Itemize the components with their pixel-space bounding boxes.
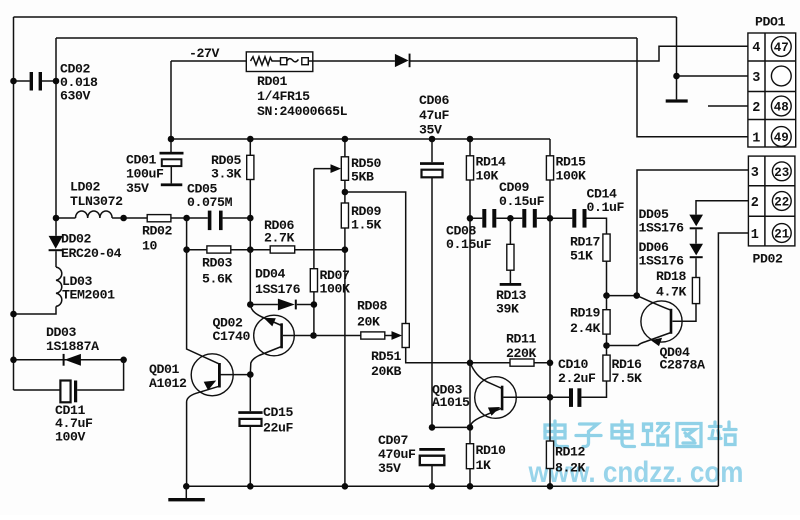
resistor RD09 [341, 203, 348, 228]
svg-text:2.2uF: 2.2uF [558, 371, 596, 386]
wiper arrow RD51 [392, 331, 403, 340]
svg-text:RD18: RD18 [656, 269, 687, 284]
svg-text:SN:24000665L: SN:24000665L [257, 104, 348, 119]
junction [507, 215, 514, 222]
wire QD04 emitter row [607, 345, 638, 347]
diode DD04 [278, 299, 297, 311]
junction [10, 78, 17, 85]
svg-text:1.5K: 1.5K [351, 217, 382, 232]
resistor RD07 [310, 269, 317, 292]
node 47 PDO1 [771, 37, 791, 57]
svg-text:1: 1 [752, 132, 760, 147]
label DD02 value [61, 232, 122, 262]
wire ground bus [186, 485, 718, 487]
label DD06 value [639, 240, 685, 268]
wire RD14 down [469, 180, 471, 218]
capacitor CD06 [420, 162, 444, 177]
wire emitter row [432, 426, 470, 428]
wire RD05 node down [249, 218, 251, 305]
transistor QD04 [637, 296, 682, 347]
resistor RD05 [247, 155, 254, 179]
node -27V label [189, 46, 220, 61]
transistor QD01 [187, 250, 234, 487]
wire CD02 left [14, 80, 30, 82]
label RD07 value [320, 268, 351, 296]
wire RD05 to node [249, 180, 251, 219]
svg-text:DD03: DD03 [46, 325, 77, 340]
transistor QD02 [250, 305, 294, 375]
junction [467, 483, 474, 490]
svg-text:TLN3072: TLN3072 [70, 194, 123, 209]
svg-text:4.7K: 4.7K [656, 285, 687, 300]
wire PD02 pin3 line [637, 170, 748, 296]
junction [547, 215, 554, 222]
wire RD19 bottom [606, 334, 608, 355]
svg-text:RD19: RD19 [570, 306, 601, 321]
node 21 PD02 [772, 224, 791, 243]
label CD07 value [378, 433, 416, 476]
capacitor CD10 [569, 388, 581, 407]
svg-text:QD01: QD01 [149, 362, 180, 377]
svg-text:RD08: RD08 [357, 299, 388, 314]
wire PDO1 pin3 line [677, 75, 748, 77]
label RD19 value [570, 306, 601, 337]
wire bus to RD05 [249, 139, 251, 155]
wire rail x56 upper [55, 38, 57, 236]
wire RD16 to CD10 [581, 381, 606, 397]
junction [467, 424, 474, 431]
resistor RD11 [510, 359, 534, 366]
label QD01 value [149, 362, 187, 391]
svg-text:1K: 1K [476, 458, 492, 473]
diode D1 series [395, 54, 411, 68]
wire RD50 wiper drop x313.9 [313, 169, 315, 269]
wire QD01 base [219, 374, 250, 376]
label RD50 value [351, 156, 382, 184]
diode DD03 [63, 354, 81, 366]
svg-text:2: 2 [751, 196, 759, 211]
wire RD08 row [314, 335, 393, 337]
node blank PDO1 [771, 66, 791, 86]
svg-text:100uF: 100uF [126, 167, 164, 182]
wire CD11 left [14, 389, 61, 391]
connector PDO1 [748, 33, 796, 147]
label RD17 value [570, 235, 601, 264]
node 23 PD02 [772, 162, 791, 181]
wire bus to CD06 [431, 139, 433, 162]
wire DD02 to LD03 [55, 251, 57, 267]
label RD06 value [264, 218, 295, 245]
junction [633, 292, 640, 299]
svg-text:35V: 35V [126, 181, 149, 196]
label LD02 value [70, 180, 123, 210]
svg-text:3: 3 [751, 166, 759, 181]
pin 3 PDO1 [752, 71, 760, 86]
svg-text:10: 10 [142, 238, 158, 253]
svg-text:CD10: CD10 [558, 357, 589, 372]
junction [120, 357, 127, 364]
junction [10, 311, 17, 318]
wire LD03 to left rail [14, 306, 57, 314]
wire RD15 down [549, 180, 551, 218]
junction [247, 246, 254, 253]
resistor RD13 [507, 244, 514, 270]
wire RD11 row [470, 362, 550, 364]
wire CD15 down [249, 426, 251, 486]
label RD11 value [506, 332, 537, 362]
capacitor CD15 [238, 411, 262, 426]
label RD01 value [257, 74, 348, 119]
label RD09 value [351, 204, 382, 232]
wire left rail [13, 17, 15, 390]
svg-text:-27V: -27V [189, 46, 220, 61]
wire RD02 to CD05 [171, 217, 208, 219]
wire RD50 bottom [344, 180, 346, 203]
ground PDO1 [666, 99, 688, 102]
svg-text:RD15: RD15 [556, 155, 587, 170]
svg-text:47: 47 [774, 41, 789, 55]
svg-text:CD09: CD09 [499, 180, 530, 195]
svg-text:39K: 39K [496, 301, 519, 316]
wire bus corner to RD15 [549, 139, 551, 156]
wire RD51 bottom row [406, 348, 470, 363]
pin 4 PDO1 [752, 41, 760, 56]
resistor RD16 [603, 355, 610, 381]
terminal bar under CD01 [161, 183, 183, 186]
svg-text:CD06: CD06 [419, 93, 450, 108]
junction [342, 483, 349, 490]
wire CD11 right [77, 360, 123, 390]
label QD02 value [213, 316, 251, 345]
svg-text:49: 49 [774, 131, 789, 145]
label RD08 value [357, 299, 388, 330]
pin 2 PDO1 [752, 101, 760, 116]
junction [429, 424, 436, 431]
watermark url [528, 456, 744, 489]
junction [342, 246, 349, 253]
junction [53, 215, 60, 222]
junction [183, 483, 190, 490]
inductor LD02 [76, 211, 113, 218]
junction [547, 394, 554, 401]
node 49 PDO1 [771, 127, 791, 147]
junction [547, 483, 554, 490]
resistor RD02 [147, 215, 171, 222]
resistor RD10 [466, 444, 473, 469]
resistor RD06 [270, 246, 295, 253]
capacitor CD11 [60, 381, 77, 403]
resistor RD08 [361, 332, 385, 339]
svg-text:CD01: CD01 [126, 153, 157, 168]
wire PDO1 pin2 stub [708, 105, 748, 107]
svg-text:8.2K: 8.2K [555, 461, 586, 476]
wire horizontal bus y139 [171, 138, 550, 140]
junction [603, 342, 610, 349]
wire RD17 to QD04 [607, 295, 637, 297]
wire RD09 down [344, 228, 346, 486]
svg-text:RD12: RD12 [555, 445, 586, 460]
junction [311, 301, 318, 308]
svg-text:7.5K: 7.5K [612, 371, 643, 386]
wire CD02 right [42, 80, 56, 82]
svg-text:RD14: RD14 [476, 155, 507, 170]
svg-text:A1012: A1012 [149, 376, 187, 391]
pin 3 PD02 [751, 166, 759, 181]
label CD05 value [187, 182, 233, 211]
wire RD13 drop [509, 218, 511, 244]
svg-text:RD02: RD02 [142, 224, 173, 239]
junction [10, 357, 17, 364]
junction [53, 78, 60, 85]
resistor RD12 [546, 441, 553, 469]
junction [603, 292, 610, 299]
label PD02 [753, 252, 784, 267]
junction [673, 73, 680, 80]
label RD13 value [496, 288, 527, 316]
wire DD03 row [14, 359, 124, 361]
label CD14 value [587, 187, 625, 215]
wire RD12 down [549, 469, 551, 487]
junction [467, 136, 474, 143]
wire QD04 base [673, 304, 697, 322]
wire CD08 row [470, 218, 607, 234]
wire PD02 pin1 line [718, 233, 748, 486]
svg-text:20KB: 20KB [371, 364, 402, 379]
svg-text:5KB: 5KB [351, 169, 374, 184]
svg-text:21: 21 [774, 228, 789, 242]
wire RD10 down [469, 469, 471, 487]
label RD12 value [555, 445, 586, 476]
svg-text:5.6K: 5.6K [202, 272, 233, 287]
label RD02 value [142, 224, 173, 254]
svg-text:1/4FR15: 1/4FR15 [257, 89, 310, 104]
wire RD13 tail [509, 270, 511, 283]
wire bus to RD50 [344, 139, 346, 157]
wire CD06 down [431, 177, 433, 427]
svg-text:DD04: DD04 [255, 267, 286, 282]
wire RD01 to diode [313, 60, 395, 62]
potentiometer RD50 [341, 157, 348, 181]
svg-text:2.4K: 2.4K [570, 321, 601, 336]
svg-text:20K: 20K [357, 315, 380, 330]
junction [467, 360, 474, 367]
label CD15 value [263, 405, 294, 436]
svg-text:10K: 10K [476, 169, 499, 184]
wire DD06 top [695, 229, 697, 243]
svg-text:RD16: RD16 [612, 357, 643, 372]
pin 1 PDO1 [752, 132, 760, 147]
wire RD19 top [606, 296, 608, 310]
label RD03 value [202, 256, 233, 287]
wire CD05 to node [223, 217, 251, 219]
wire CD07 down [431, 465, 433, 486]
wire RD07 down [313, 292, 315, 336]
wire diode to PDO1 pin4 [411, 46, 748, 61]
svg-text:2: 2 [752, 101, 760, 116]
svg-text:DD02: DD02 [61, 232, 92, 247]
wire RD50 tap to RD51 [345, 192, 406, 324]
label PDO1 [755, 15, 786, 30]
svg-text:3.3K: 3.3K [211, 166, 242, 181]
svg-text:35V: 35V [378, 461, 401, 476]
capacitor CD07 [419, 448, 445, 465]
inductor LD03 [56, 267, 62, 306]
wire DD04 right [297, 304, 314, 306]
junction [310, 332, 317, 339]
label RD05 value [211, 153, 242, 181]
terminal bar under RD13 [500, 283, 522, 286]
capacitor CD09 [522, 209, 537, 228]
svg-text:RD10: RD10 [476, 443, 507, 458]
junction [183, 215, 190, 222]
label CD06 value [419, 93, 450, 138]
svg-text:23: 23 [774, 166, 789, 180]
capacitor CD14 [572, 209, 586, 228]
node 48 PDO1 [771, 96, 791, 116]
label QD04 value [660, 345, 706, 373]
pin 2 PD02 [751, 196, 759, 211]
label RD16 value [612, 357, 643, 386]
wire top rail -27V feed [14, 16, 677, 18]
resistor RD18 [692, 278, 699, 304]
fusible resistor RD01 [246, 52, 312, 72]
svg-text:630V: 630V [60, 89, 91, 104]
svg-text:3: 3 [752, 71, 760, 86]
svg-text:0.075M: 0.075M [187, 195, 233, 210]
svg-text:CD07: CD07 [378, 433, 409, 448]
junction [183, 246, 190, 253]
svg-text:RD11: RD11 [506, 332, 537, 347]
svg-text:RD17: RD17 [570, 235, 601, 250]
wire second top rail [56, 37, 637, 39]
svg-text:2.7K: 2.7K [264, 230, 295, 245]
wire DD04 left [250, 304, 278, 306]
svg-text:A1015: A1015 [432, 395, 470, 410]
wire DD05 to PD02 pin2 [696, 201, 748, 215]
wire RD18 top [695, 258, 697, 277]
wire y218 left [56, 217, 76, 219]
svg-text:C2878A: C2878A [660, 358, 706, 373]
label DD03 value [46, 325, 99, 354]
wire QD02 base [283, 335, 314, 337]
wire QD03 base [503, 396, 550, 398]
label CD09 value [499, 180, 545, 209]
wire RD03 row [187, 249, 345, 251]
resistor RD03 [207, 246, 231, 253]
junction [247, 483, 254, 490]
node 22 PD02 [772, 192, 791, 211]
label CD11 value [55, 403, 93, 444]
svg-text:C1740: C1740 [213, 329, 251, 344]
svg-text:RD01: RD01 [257, 74, 288, 89]
label CD02 value [60, 62, 98, 104]
svg-text:RD51: RD51 [371, 349, 402, 364]
svg-text:100K: 100K [320, 281, 351, 296]
label LD03 value [62, 274, 115, 302]
wiper arrow RD50 [314, 164, 341, 173]
svg-text:51K: 51K [570, 249, 593, 264]
label CD01 value [126, 153, 164, 196]
resistor RD17 [603, 234, 610, 261]
svg-text:PD02: PD02 [753, 252, 784, 267]
svg-text:0.15uF: 0.15uF [446, 237, 492, 252]
label RD51 value [371, 349, 402, 379]
svg-text:22uF: 22uF [263, 421, 294, 436]
junction [429, 483, 436, 490]
pin 1 PD02 [751, 228, 759, 243]
svg-text:48: 48 [774, 101, 789, 115]
junction [342, 189, 349, 196]
label RD10 value [476, 443, 507, 473]
wire LD02 to RD02 [112, 217, 147, 219]
wire CD10 to node [550, 396, 569, 398]
capacitor CD08 [482, 209, 496, 228]
svg-text:1S1887A: 1S1887A [46, 339, 99, 354]
svg-text:RD03: RD03 [202, 256, 233, 271]
junction [247, 371, 254, 378]
resistor RD19 [603, 310, 610, 334]
junction [247, 136, 254, 143]
wire PDO1 pin1 line [637, 38, 748, 137]
watermark site name [545, 421, 736, 447]
wire bus to RD14 [469, 139, 471, 156]
svg-text:TEM2001: TEM2001 [62, 287, 115, 302]
svg-text:220K: 220K [506, 346, 537, 361]
label CD08 value [446, 224, 492, 252]
wire x550 column [549, 218, 551, 441]
junction [120, 215, 127, 222]
svg-text:1SS176: 1SS176 [639, 220, 685, 235]
diode DD05 [689, 215, 703, 230]
svg-text:100V: 100V [55, 429, 86, 444]
svg-text:ERC20-04: ERC20-04 [61, 246, 122, 261]
svg-text:470uF: 470uF [378, 447, 416, 462]
svg-text:PDO1: PDO1 [755, 15, 786, 30]
junction [247, 301, 254, 308]
junction [342, 136, 349, 143]
svg-text:1SS176: 1SS176 [255, 282, 301, 297]
junction [168, 136, 175, 143]
resistor RD14 [466, 156, 473, 180]
svg-text:4: 4 [752, 41, 760, 56]
connector PD02 [748, 156, 795, 246]
svg-text:35V: 35V [419, 123, 442, 138]
junction [547, 360, 554, 367]
junction [467, 215, 474, 222]
wire x470 mid [469, 218, 471, 443]
diode DD02 [49, 236, 63, 251]
wire x676 drop to ground [676, 17, 678, 99]
potentiometer RD51 [402, 324, 409, 348]
svg-text:47uF: 47uF [419, 108, 450, 123]
svg-text:1: 1 [751, 228, 759, 243]
svg-text:LD02: LD02 [70, 180, 101, 195]
junction [247, 215, 254, 222]
wire -27V line left [171, 60, 246, 62]
label DD04 value [255, 267, 301, 298]
label RD18 value [656, 269, 687, 300]
wire QD02C to CD15 [249, 375, 251, 412]
ground main [168, 486, 205, 501]
label DD05 value [639, 207, 685, 235]
capacitor CD01 [160, 152, 184, 184]
junction [429, 136, 436, 143]
svg-text:0.15uF: 0.15uF [499, 194, 545, 209]
svg-text:CD15: CD15 [263, 405, 294, 420]
label CD10 value [558, 357, 596, 386]
wire QD01 collector riser [186, 218, 188, 250]
svg-text:1SS176: 1SS176 [639, 253, 685, 268]
